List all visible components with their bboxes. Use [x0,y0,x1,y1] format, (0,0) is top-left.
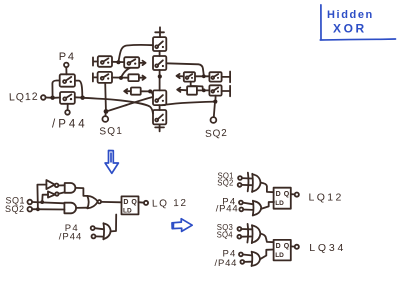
XOR gate X1 [247,173,250,192]
terminal LQ12 [295,193,299,197]
junction J9 [202,89,206,93]
wire SQ1 to AND2 [32,202,64,203]
pass-gate C4 [153,110,166,124]
wire SQ2 [214,104,215,117]
svg-text:Q: Q [284,243,290,250]
junction J1 [50,96,54,100]
wire riser SQ1 to inv2 [42,195,48,202]
pass-gate C2 [153,56,166,70]
svg-text:XOR: XOR [333,22,367,36]
svg-text:/P44: /P44 [216,204,239,215]
latch U3 [274,240,291,261]
svg-text:Hidden: Hidden [327,9,374,21]
terminal P4 [91,226,95,230]
pass-gate A1 [60,74,75,86]
wire inv2 to AND1 [59,192,65,194]
pass-gate C3 [153,90,166,105]
wire A2 out [75,96,83,98]
junction J10 [213,100,217,104]
wire W2 to C3 [108,97,153,111]
wire O1 to latch LD [261,202,274,209]
wire W3 long horizontal [162,102,215,106]
wire /P44 to A2 [67,104,69,110]
svg-text:SQ4: SQ4 [217,230,234,239]
wire P4 to A1 [65,67,67,74]
box I [131,88,141,95]
wire [159,105,161,110]
arrow right of G [139,61,145,65]
wire E1 bottom to J9 [191,82,203,90]
terminal SQ2 [238,183,242,187]
wire E3 down [214,96,216,102]
junction SQ1 [40,200,44,204]
wire P4 to OR2 [243,254,252,257]
box H [128,74,139,81]
wire Q out [291,193,295,195]
AND gate AND2 [64,203,76,214]
wire P4 to OR1 [243,203,253,205]
wire X1 to latch D [261,183,274,193]
svg-text:/P44: /P44 [59,231,83,242]
wire B1 to G [112,61,124,63]
wire SQ1 up [104,114,106,116]
terminal SQ4 [237,235,241,239]
wire inv1 to AND1 [58,184,64,186]
terminal P4 [239,253,243,257]
svg-text:LQ12: LQ12 [309,191,344,203]
wire J1 to A2 [55,97,60,99]
OR gate LD [102,223,105,239]
wire [159,51,161,56]
terminal /P44 [65,110,70,115]
wires to XOR2 [241,229,251,237]
NOR gate [87,196,97,208]
pass-gate B2 [98,72,112,83]
wire C2 out to E pair [166,63,203,74]
terminal LQ12 [41,95,46,100]
junction J5 [119,76,123,80]
wire J4 up to C1 [118,45,153,62]
terminal P4 [239,201,243,205]
pass-gate G [124,57,139,68]
svg-text:/P44: /P44 [215,258,238,269]
wire SQ2 to AND2 [32,208,64,210]
wire B2 to H [112,77,128,79]
wire /P44 to OR1 [243,209,252,211]
wire [159,70,161,90]
svg-text:LD: LD [123,207,132,214]
pass-gate E3 [209,85,221,95]
wire A1 out [75,81,82,97]
pass-gate B1 [98,56,112,67]
svg-text:SQ1: SQ1 [99,126,123,138]
terminal SQ3 [238,227,242,231]
arrow right of H [139,76,146,80]
blue arrow down [105,151,118,174]
terminal LQ34 [295,245,299,249]
wire riser SQ2 to inv1 [37,185,46,210]
wire G bottom to J5 [121,68,130,78]
terminal LQ12 out [144,201,148,205]
junction J3 [104,109,109,114]
junction J4 [116,60,120,64]
wire to A1 [52,81,59,98]
svg-text:/P44: /P44 [52,119,88,131]
tick terminal E2 [222,72,231,83]
wire Q out [139,201,144,204]
junction J2 [80,96,84,100]
terminal SQ2 [211,117,217,123]
arrow left of F [177,88,187,92]
wire X2 to latch D [260,234,273,243]
pass-gate A2 [60,92,75,104]
terminal /P44 [239,208,243,212]
terminal P4 [64,63,69,68]
wire W1 from J2 to C4 [83,98,153,114]
svg-text:SQ2: SQ2 [205,128,228,140]
svg-text:D: D [276,243,281,250]
junction J7 [158,74,162,78]
svg-text:LQ34: LQ34 [309,242,346,254]
box F [187,86,197,94]
pass-gate C1 [153,37,166,51]
svg-text:LD: LD [275,200,284,207]
terminal /P44 [92,234,96,238]
terminal /P44 [240,260,244,264]
wire /P44 to OR [96,235,104,237]
inverter INV2 [48,191,55,197]
OR gate O1 [252,201,255,216]
arrow left of I [124,89,131,93]
wire AND1 to NOR [75,188,87,196]
terminal SQ2 [28,207,33,212]
tick terminal B2 [93,73,98,81]
terminal SQ1 [102,116,108,122]
svg-text:Q: Q [284,191,290,198]
wire riser to B2 [104,83,107,110]
wire [46,97,51,99]
wire J6 to C3 [150,91,153,95]
latch U2 [274,188,291,209]
arrow left of E1 [177,74,184,78]
svg-text:LD: LD [275,252,284,259]
power tick top of column C [155,27,164,37]
wire NOR to latch [101,201,121,203]
pass-gate E1 [184,72,195,81]
inverter INV1 [46,180,54,189]
pass-gate E2 [209,72,221,81]
junction SQ2 [36,207,40,211]
junction J6 [148,89,152,93]
svg-text:P4: P4 [59,51,76,63]
svg-text:Q: Q [131,199,137,206]
tick terminal B1 [93,57,98,65]
wire F to E3 [197,89,210,91]
svg-text:SQ2: SQ2 [5,204,25,214]
wire O2 to latch LD [260,250,273,260]
wire P4 to OR [95,228,104,229]
svg-text:LQ12: LQ12 [9,91,39,104]
svg-text:SQ2: SQ2 [217,179,233,188]
OR gate O2 [251,252,254,266]
wire AND2 to NOR [76,207,87,209]
svg-text:LQ 12: LQ 12 [152,198,188,210]
tick terminal E3 [222,86,231,97]
power tick bottom of column C [155,124,164,131]
blue arrow right [172,219,192,232]
wire OR to latch LD [111,215,117,232]
svg-text:D: D [276,191,281,198]
AND gate AND1 [65,183,76,193]
wire E1-E2 [195,75,209,77]
svg-text:D: D [123,199,128,206]
wire /P44 to OR2 [244,261,251,263]
junction J8 [202,74,206,78]
wires to XOR1 [242,178,252,185]
wire I out [141,90,151,92]
latch U1 [122,196,139,214]
terminal SQ1 [28,200,33,205]
blue annotation: Hidden XOR corner box [320,5,395,40]
wire Q out [291,245,295,247]
terminal SQ1 [238,176,242,180]
XOR gate X2 [246,224,249,243]
